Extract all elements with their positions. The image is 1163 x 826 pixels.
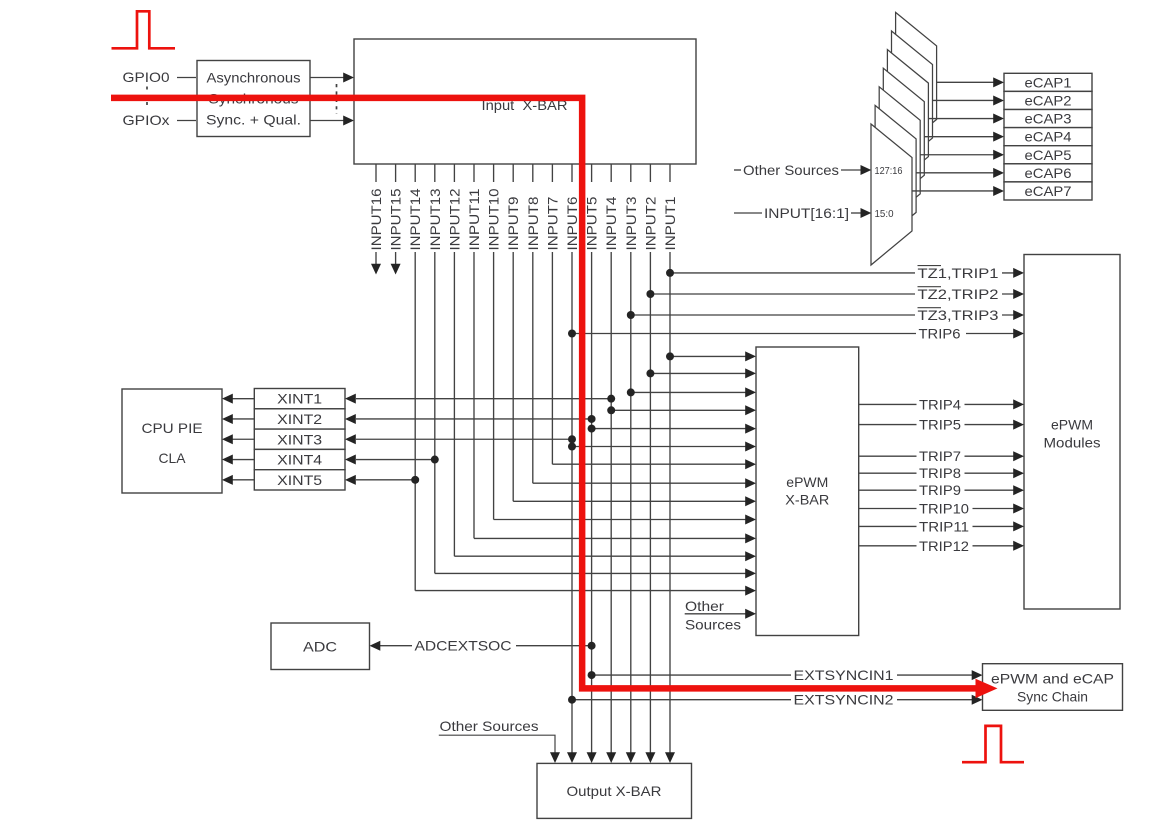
wire INPUT2 vertical down to Output X-BAR [649, 252, 651, 754]
red highlighted signal trace GPIO to sync chain [111, 98, 976, 689]
wire INPUT7 vertical [551, 252, 553, 464]
svg-text:Sync. + Qual.: Sync. + Qual. [206, 112, 301, 128]
svg-text:ePWM and eCAP: ePWM and eCAP [991, 671, 1114, 687]
wire Other Sources underline into Output X-BAR [439, 735, 555, 753]
svg-text:eCAP7: eCAP7 [1025, 183, 1072, 199]
CPU PIE / CLA box [122, 389, 222, 493]
block XINT4 box [254, 449, 345, 469]
ePWM X-BAR box [756, 347, 859, 636]
wire INPUT13 vertical [434, 252, 436, 573]
wire INPUT7 row into ePWM X-BAR [552, 463, 746, 465]
block eCAP3 box [1004, 110, 1092, 128]
wire TZ3,TRIP3 row from INPUT3 to ePWM Modules [631, 314, 1014, 316]
svg-text:INPUT4: INPUT4 [603, 196, 619, 250]
svg-text:TRIP7: TRIP7 [919, 448, 961, 464]
svg-text:Sources: Sources [685, 617, 741, 633]
node INPUT[16:1] label into mux [734, 212, 762, 214]
wire INPUT3 vertical down to Output X-BAR [630, 252, 632, 754]
block ePWM and eCAP Sync Chain box [983, 664, 1123, 711]
wire INPUT10 stub below Input X-BAR [493, 164, 495, 182]
svg-text:XINT1: XINT1 [277, 391, 322, 407]
svg-text:Sync Chain: Sync Chain [1017, 689, 1088, 705]
svg-text:TRIP12: TRIP12 [919, 538, 969, 554]
svg-text:INPUT12: INPUT12 [446, 188, 462, 250]
wire TRIP10 row ePWM X-BAR to ePWM Modules [859, 508, 1014, 510]
wire INPUT3 stub below Input X-BAR [630, 164, 632, 182]
wire INPUT8 row into ePWM X-BAR [533, 482, 746, 484]
wire INPUT13 stub below Input X-BAR [434, 164, 436, 182]
overline on TZ1 [918, 265, 942, 267]
wire INPUT8 vertical [532, 252, 534, 483]
wire INPUT6 stub below Input X-BAR [571, 164, 573, 182]
mux select card 2 [892, 31, 933, 172]
wire XINT5 input row from INPUT14 [356, 479, 415, 481]
block eCAP6 box [1004, 164, 1092, 182]
wire TZ1,TRIP1 row from INPUT1 to ePWM Modules [670, 272, 1014, 274]
svg-text:Other Sources: Other Sources [440, 718, 539, 734]
wire INPUT3 row into ePWM X-BAR [631, 391, 746, 393]
wire INPUT9 vertical [512, 252, 514, 501]
svg-text:eCAP5: eCAP5 [1025, 147, 1072, 163]
wire INPUT12 row into ePWM X-BAR [454, 555, 746, 557]
svg-text:INPUT16: INPUT16 [368, 188, 384, 250]
svg-text:INPUT6: INPUT6 [564, 196, 580, 250]
wire INPUT4 row into ePWM X-BAR [611, 409, 746, 411]
mux select card 4 [883, 68, 924, 209]
svg-text:XINT2: XINT2 [277, 411, 322, 427]
block XINT5 box [254, 470, 345, 490]
wire EXTSYNCIN1 from INPUT5 to sync chain [592, 674, 973, 676]
svg-text:INPUT11: INPUT11 [466, 188, 482, 250]
wire XINT1 input row from INPUT4 [356, 398, 611, 400]
block eCAP7 box [1004, 182, 1092, 200]
wire INPUT4 vertical down to Output X-BAR [610, 252, 612, 754]
wire GPIO0 to qualifier box [177, 77, 196, 79]
block ADC box [271, 623, 370, 670]
Input X-BAR box [354, 39, 696, 164]
wire INPUT14 vertical [414, 252, 416, 591]
svg-text:TRIP8: TRIP8 [919, 465, 961, 481]
wire XINT2 input row from INPUT5 [356, 418, 592, 420]
svg-text:INPUT13: INPUT13 [427, 188, 443, 250]
svg-text:INPUT10: INPUT10 [486, 188, 502, 250]
wire XINT3 to CPU PIE arrow [233, 438, 255, 440]
svg-text:TRIP9: TRIP9 [919, 482, 961, 498]
overline on TZ2 [918, 286, 942, 288]
red input pulse waveform (top left) [112, 11, 176, 48]
wire INPUT11 stub below Input X-BAR [473, 164, 475, 182]
block eCAP4 box [1004, 128, 1092, 146]
wire INPUT4 stub below Input X-BAR [610, 164, 612, 182]
wire INPUT12 vertical [453, 252, 455, 556]
block XINT2 box [254, 409, 345, 429]
svg-text:INPUT8: INPUT8 [525, 196, 541, 250]
wire INPUT2 stub below Input X-BAR [649, 164, 651, 182]
svg-text:Other Sources: Other Sources [743, 162, 839, 178]
wire TRIP5 row ePWM X-BAR to ePWM Modules [859, 424, 1014, 426]
wire TRIP12 row ePWM X-BAR to ePWM Modules [859, 545, 1014, 547]
svg-text:CLA: CLA [159, 450, 187, 466]
block eCAP1 box [1004, 73, 1092, 91]
svg-text:ADC: ADC [303, 639, 337, 655]
wire INPUT10 vertical [493, 252, 495, 520]
wire INPUT10 row into ePWM X-BAR [494, 519, 746, 521]
mux select card 3 [887, 50, 928, 191]
svg-text:TRIP6: TRIP6 [919, 326, 961, 342]
wire INPUT14 row into ePWM X-BAR [415, 590, 746, 592]
svg-text:INPUT2: INPUT2 [642, 196, 658, 250]
wire TRIP11 row ePWM X-BAR to ePWM Modules [859, 525, 1014, 527]
wire TRIP7 row ePWM X-BAR to ePWM Modules [859, 455, 1014, 457]
wire TRIP4 row ePWM X-BAR to ePWM Modules [859, 403, 1014, 405]
block XINT3 box [254, 429, 345, 449]
svg-text:TRIP11: TRIP11 [919, 518, 969, 534]
wire INPUT12 stub below Input X-BAR [453, 164, 455, 182]
svg-text:TZ2,TRIP2: TZ2,TRIP2 [918, 286, 999, 302]
wire GPIOx to qualifier box [177, 120, 196, 122]
wire INPUT11 vertical [473, 252, 475, 538]
wire EXTSYNCIN2 from INPUT6 to sync chain [572, 699, 973, 701]
svg-text:GPIOx: GPIOx [123, 112, 170, 128]
wire INPUT7 stub below Input X-BAR [551, 164, 553, 182]
wire TZ2,TRIP2 row from INPUT2 to ePWM Modules [650, 293, 1014, 295]
svg-text:TRIP10: TRIP10 [919, 501, 969, 517]
svg-text:GPIO0: GPIO0 [123, 69, 170, 85]
wire mux to eCAP7 [912, 190, 994, 192]
wire INPUT16 terminating arrow [375, 252, 377, 264]
wire ADCEXTSOC from INPUT5 to ADC [380, 645, 592, 647]
svg-text:eCAP1: eCAP1 [1025, 74, 1072, 90]
svg-text:INPUT[16:1]: INPUT[16:1] [764, 205, 849, 221]
wire XINT3 input row from INPUT6 [356, 438, 572, 440]
wire INPUT9 stub below Input X-BAR [512, 164, 514, 182]
wire mux to eCAP2 [933, 99, 995, 101]
svg-text:ePWM: ePWM [1051, 417, 1093, 433]
svg-text:TRIP4: TRIP4 [919, 396, 961, 412]
svg-text:Other: Other [685, 598, 724, 614]
svg-text:XINT4: XINT4 [277, 452, 322, 468]
svg-text:INPUT15: INPUT15 [388, 188, 404, 250]
svg-text:EXTSYNCIN1: EXTSYNCIN1 [794, 667, 894, 683]
red trace arrowhead at sync chain [976, 679, 998, 698]
svg-text:INPUT14: INPUT14 [407, 188, 423, 250]
wire XINT4 to CPU PIE arrow [233, 459, 255, 461]
svg-text:Modules: Modules [1044, 435, 1101, 451]
mux select card 7 [871, 124, 912, 265]
wire TRIP6 row from INPUT6 to ePWM Modules [572, 333, 1014, 335]
wire INPUT5 stub below Input X-BAR [591, 164, 593, 182]
wire mux to eCAP5 [920, 154, 994, 156]
svg-text:TZ1,TRIP1: TZ1,TRIP1 [918, 265, 999, 281]
wire XINT5 to CPU PIE arrow [233, 479, 255, 481]
svg-text:XINT3: XINT3 [277, 431, 322, 447]
dashed ellipsis between qualifier arrows [336, 84, 338, 114]
svg-text:X-BAR: X-BAR [785, 492, 829, 508]
wire TRIP8 row ePWM X-BAR to ePWM Modules [859, 472, 1014, 474]
wire mux to eCAP1 [937, 81, 994, 83]
wire INPUT1 row into ePWM X-BAR [670, 355, 746, 357]
block XINT1 box [254, 389, 345, 409]
wire Other Sources into ePWM X-BAR [685, 613, 746, 615]
wire mux to eCAP6 [916, 172, 994, 174]
svg-text:TRIP5: TRIP5 [919, 417, 961, 433]
svg-text:EXTSYNCIN2: EXTSYNCIN2 [794, 692, 894, 708]
wire XINT1 to CPU PIE arrow [233, 398, 255, 400]
node Other Sources label into mux [734, 169, 741, 171]
block Output X-BAR box [537, 763, 692, 818]
input qualifier box [197, 61, 310, 137]
svg-text:Asynchronous: Asynchronous [207, 70, 301, 86]
ePWM Modules box [1024, 255, 1120, 610]
svg-text:ePWM: ePWM [786, 474, 828, 490]
svg-text:eCAP3: eCAP3 [1025, 111, 1072, 127]
mux select card 6 [875, 105, 916, 246]
wire INPUT5 vertical down to Output X-BAR [591, 252, 593, 754]
wire INPUT8 stub below Input X-BAR [532, 164, 534, 182]
svg-text:127:16: 127:16 [875, 165, 903, 177]
wire INPUT6 row into ePWM X-BAR [572, 446, 746, 448]
ellipsis between GPIO0 and GPIOx [146, 87, 148, 109]
wire INPUT2 row into ePWM X-BAR [650, 372, 746, 374]
wire TRIP9 row ePWM X-BAR to ePWM Modules [859, 489, 1014, 491]
wire INPUT5 row into ePWM X-BAR [592, 428, 746, 430]
wire mux to eCAP4 [924, 136, 994, 138]
mux select card 1 [896, 12, 937, 153]
wire INPUT11 row into ePWM X-BAR [474, 537, 746, 539]
wire INPUT14 stub below Input X-BAR [414, 164, 416, 182]
svg-text:ADCEXTSOC: ADCEXTSOC [415, 638, 512, 654]
svg-text:INPUT9: INPUT9 [505, 196, 521, 250]
svg-text:INPUT1: INPUT1 [662, 196, 678, 250]
wire INPUT16 stub below Input X-BAR [375, 164, 377, 182]
svg-text:eCAP6: eCAP6 [1025, 165, 1072, 181]
wire qualifier to Input X-BAR (upper) with arrow [310, 77, 344, 79]
wire INPUT1 vertical down to Output X-BAR [669, 252, 671, 754]
block eCAP5 box [1004, 146, 1092, 164]
svg-text:INPUT5: INPUT5 [584, 196, 600, 250]
svg-text:eCAP2: eCAP2 [1025, 92, 1072, 108]
wire INPUT15 stub below Input X-BAR [395, 164, 397, 182]
svg-text:Output X-BAR: Output X-BAR [567, 783, 662, 799]
svg-text:TZ3,TRIP3: TZ3,TRIP3 [918, 307, 999, 323]
svg-text:XINT5: XINT5 [277, 472, 322, 488]
overline on TZ3 [918, 307, 942, 309]
svg-text:15:0: 15:0 [875, 208, 894, 220]
mux select card 5 [879, 87, 920, 228]
wire mux to eCAP3 [928, 118, 994, 120]
svg-text:INPUT3: INPUT3 [623, 196, 639, 250]
wire qualifier to Input X-BAR (lower) with arrow [310, 120, 344, 122]
wire INPUT13 row into ePWM X-BAR [435, 572, 746, 574]
wire XINT2 to CPU PIE arrow [233, 418, 255, 420]
wire XINT4 input row from INPUT13 [356, 459, 435, 461]
svg-text:eCAP4: eCAP4 [1025, 129, 1072, 145]
wire INPUT1 stub below Input X-BAR [669, 164, 671, 182]
svg-text:CPU PIE: CPU PIE [142, 420, 203, 436]
svg-text:INPUT7: INPUT7 [544, 196, 560, 250]
wire INPUT15 terminating arrow [395, 252, 397, 264]
block eCAP2 box [1004, 91, 1092, 109]
wire INPUT6 vertical down to Output X-BAR [571, 252, 573, 754]
wire INPUT9 row into ePWM X-BAR [513, 500, 746, 502]
red output pulse waveform (bottom right) [962, 726, 1024, 762]
